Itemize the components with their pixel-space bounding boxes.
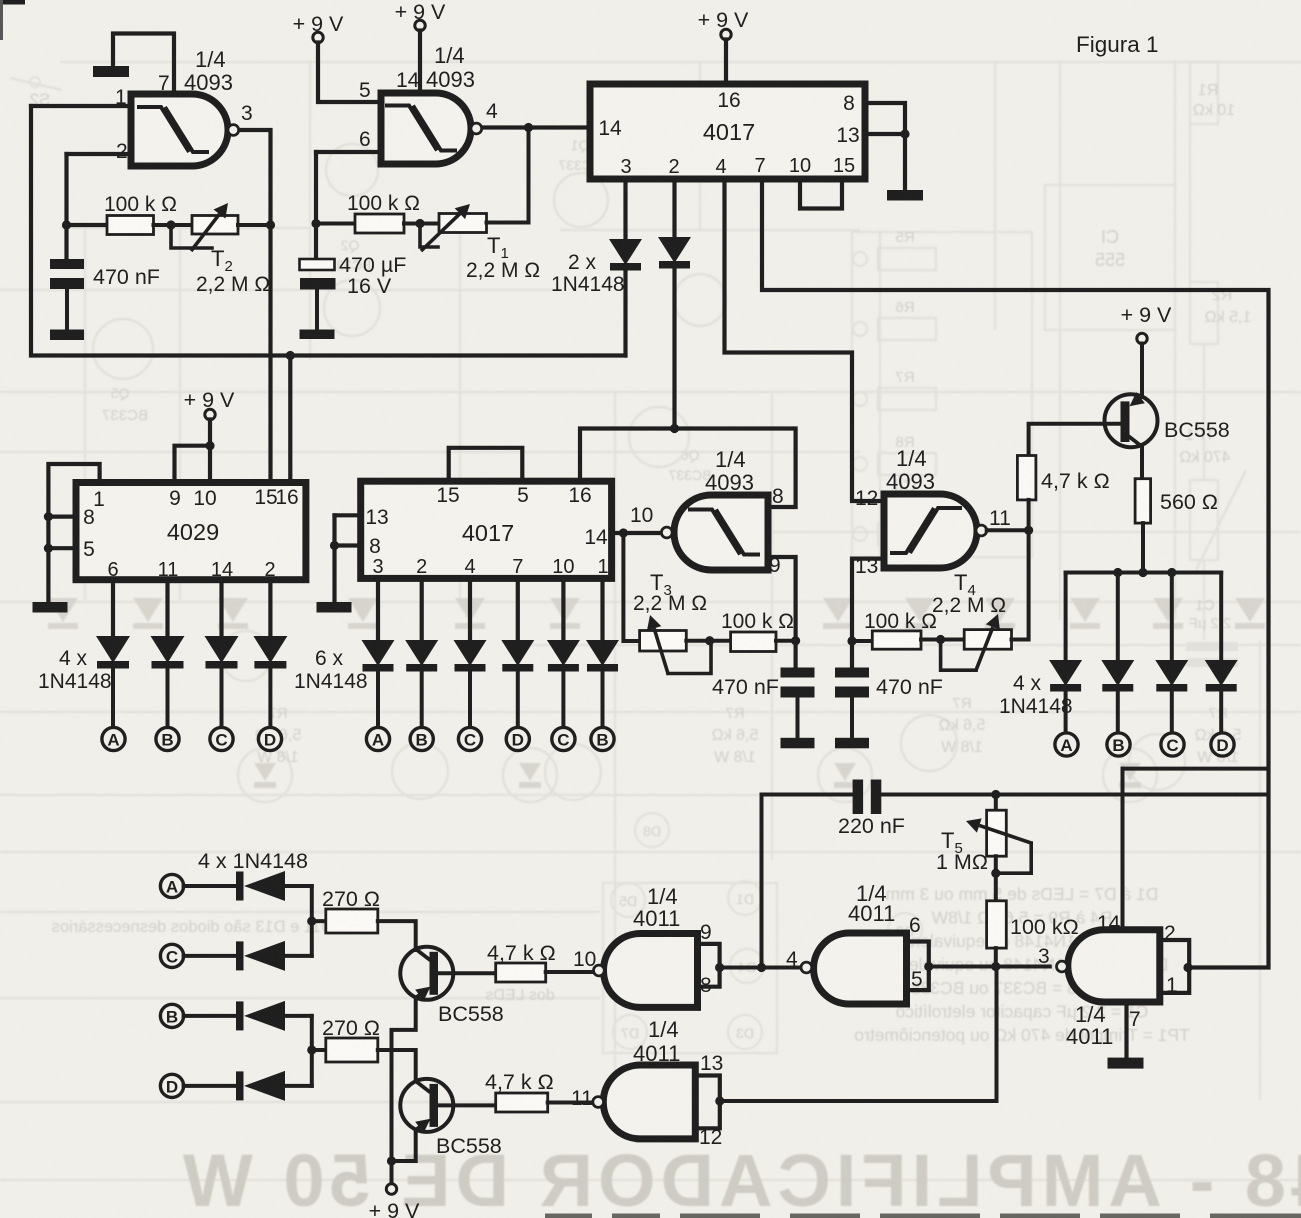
wire: [929, 965, 1050, 969]
wire: [238, 223, 271, 227]
wire: [1141, 523, 1145, 572]
wire: [1140, 344, 1144, 398]
T1 wiper arrow: [421, 214, 460, 251]
wire: [468, 669, 472, 727]
node C: [160, 944, 183, 967]
wire: [312, 919, 326, 923]
node A: [366, 727, 389, 750]
wire: [165, 580, 169, 637]
gate 1/4 4011 GA: [604, 934, 698, 1008]
wire: [208, 420, 212, 483]
op: gate 1/4 4093 (pins 1,2,7,3): [131, 94, 228, 166]
wire: [378, 921, 416, 950]
wire: [111, 667, 115, 727]
node C: [552, 727, 575, 750]
resistor body: [496, 963, 546, 982]
diode 1N4148: [609, 239, 642, 265]
wire: [285, 1014, 312, 1018]
node B: [1107, 733, 1130, 756]
schmitt-trigger mark: [137, 107, 189, 152]
wire: [796, 698, 800, 738]
wire: [312, 1048, 326, 1052]
IC 4017 middle: [361, 481, 612, 578]
wire: [48, 464, 99, 602]
wire: [31, 104, 131, 108]
T2 wiper arrow: [191, 214, 219, 251]
output bubble: [593, 1097, 604, 1108]
wire: [1064, 690, 1068, 732]
diode 1N4148: [586, 640, 619, 666]
output bubble: [661, 527, 672, 538]
gate 1/4 4011 GD: [1068, 930, 1160, 1002]
diode 1N4148: [1049, 660, 1082, 686]
wire: [720, 966, 799, 970]
junction: [524, 123, 533, 132]
gate 1/4 4011 GB: [603, 1065, 695, 1139]
wire: [184, 884, 236, 888]
wire: [1124, 1002, 1128, 1058]
junction: [715, 963, 724, 972]
wire: [601, 669, 605, 727]
junction: [307, 917, 316, 926]
resistor body: [640, 631, 687, 652]
node C: [210, 727, 233, 750]
node D: [160, 1074, 183, 1097]
wire: [921, 638, 964, 642]
ground: [887, 190, 923, 201]
T5 wiper arrow: [979, 825, 1031, 843]
wire: [1012, 530, 1029, 639]
node B: [591, 727, 614, 750]
+9V terminal: [313, 32, 323, 42]
junction: [936, 635, 945, 644]
wire: [686, 639, 730, 643]
wire: [768, 557, 796, 668]
wire: [720, 967, 997, 1102]
gate 1/4 4093 G3: [674, 495, 768, 570]
wire: [800, 179, 842, 209]
resistor 100k (vertical, bottom): [987, 901, 1007, 948]
ground: [33, 602, 68, 613]
wire: [67, 223, 108, 227]
scan corner artifact: [0, 0, 25, 5]
wire: [31, 106, 625, 356]
diode 1N4148: [236, 1001, 244, 1030]
junction: [991, 869, 1000, 878]
resistor body: [731, 632, 776, 652]
diode 1N4148: [236, 872, 244, 901]
wire: [623, 270, 627, 356]
resistor body: [964, 630, 1011, 650]
output bubble: [594, 965, 605, 976]
capacitor: [835, 668, 869, 678]
junction: [619, 528, 628, 537]
junction: [1167, 568, 1176, 577]
capacitor: [781, 668, 815, 678]
node C: [458, 727, 481, 750]
junction: [705, 636, 714, 645]
node A: [160, 874, 183, 897]
wire: [378, 1050, 416, 1081]
wire: [184, 1084, 236, 1088]
wire: [420, 578, 424, 641]
wire: [1116, 573, 1120, 662]
wire: [1121, 769, 1125, 930]
wire: [762, 795, 853, 968]
wire: [438, 1103, 496, 1107]
diode 1N4148: [362, 640, 395, 666]
wire: [239, 130, 271, 482]
wire: [184, 1014, 236, 1018]
wire: [698, 944, 720, 987]
schmitt-trigger mark: [385, 106, 437, 151]
wire: [315, 290, 319, 330]
output bubble: [801, 962, 812, 973]
T3 wiper arrow: [654, 628, 668, 673]
wire: [987, 528, 1029, 532]
wire: [487, 128, 529, 223]
wire: [288, 356, 292, 483]
wire: [516, 669, 520, 727]
wire: [316, 150, 381, 154]
wire: [67, 152, 132, 156]
node D: [506, 727, 529, 750]
wire: [220, 667, 224, 727]
wire: [376, 578, 380, 641]
T4 wiper arrow: [976, 627, 993, 670]
wire: [184, 954, 236, 958]
ground: [1108, 1058, 1144, 1069]
wire: [1123, 767, 1269, 771]
output bubble: [228, 125, 239, 136]
wire: [724, 40, 728, 85]
wire: [695, 1076, 720, 1129]
wire: [219, 580, 223, 637]
+9V terminal: [721, 29, 731, 39]
wire: [994, 856, 998, 901]
transistor BC558 body: [400, 947, 453, 1000]
ground: [93, 66, 129, 77]
resistor body: [107, 216, 154, 235]
output bubble: [976, 525, 987, 536]
wire: [672, 179, 676, 238]
junction: [1113, 568, 1122, 577]
junction: [900, 129, 909, 138]
transistor BC558 body: [1105, 394, 1158, 447]
wire: [623, 179, 627, 240]
junction: [991, 962, 1000, 971]
wire: [438, 971, 496, 975]
junction: [166, 220, 175, 229]
node A: [102, 727, 125, 750]
junction: [44, 544, 53, 553]
+9V terminal: [205, 409, 215, 419]
junction: [205, 441, 214, 450]
wire: [548, 1101, 593, 1105]
junction: [757, 963, 766, 972]
schmitt-trigger mark: [688, 510, 740, 555]
junction: [1024, 526, 1033, 535]
wire: [392, 1130, 416, 1161]
gate 1/4 4093 G4: [884, 494, 977, 568]
wire: [310, 1016, 314, 1086]
wire: [314, 152, 318, 259]
wire: [852, 559, 884, 668]
wire: [404, 222, 439, 226]
wire: [725, 179, 885, 501]
resistor body: [355, 214, 404, 233]
diode 1N4148: [236, 1071, 244, 1100]
+9V terminal: [1137, 333, 1147, 343]
resistor body: [496, 1093, 548, 1112]
wire: [482, 125, 590, 129]
wire: [48, 546, 76, 550]
junction: [991, 790, 1000, 799]
wire: [1219, 573, 1223, 662]
wire: [335, 543, 361, 547]
wire: [420, 669, 424, 727]
wire: [623, 533, 639, 641]
wire: [1029, 424, 1121, 456]
wire: [994, 948, 998, 966]
wire: [65, 289, 69, 330]
wire: [600, 578, 604, 641]
diode 1N4148: [253, 636, 287, 663]
wire: [171, 225, 212, 248]
junction: [307, 1045, 316, 1054]
wire: [285, 954, 312, 958]
wire: [941, 640, 976, 671]
capacitor 470uF 16V electrolytic: [300, 259, 335, 270]
diode 1N4148: [454, 640, 487, 666]
diode 1N4148: [1101, 660, 1134, 686]
wire: [546, 970, 594, 974]
resistor body: [872, 631, 921, 649]
wire: [907, 942, 929, 991]
diode 1N4148: [1155, 660, 1188, 686]
wire: [418, 31, 422, 94]
resistor body: [326, 1038, 378, 1062]
wire: [1066, 571, 1222, 575]
junction: [286, 351, 295, 360]
IC 4017 top: [590, 84, 865, 179]
wire: [1170, 573, 1174, 662]
ground: [300, 330, 335, 340]
wire: [332, 515, 336, 602]
ground: [317, 602, 352, 613]
wire: [612, 531, 662, 535]
resistor body: [439, 214, 487, 233]
diode 1N4148: [1205, 660, 1238, 686]
schmitt-trigger mark: [910, 508, 962, 553]
diode 1N4148: [501, 640, 534, 666]
wire: [996, 843, 1031, 873]
junction: [62, 220, 71, 229]
wire: [1160, 940, 1189, 993]
junction: [715, 1096, 724, 1105]
wire: [865, 103, 905, 190]
bottom cropped text dashes: [545, 1214, 592, 1218]
diode 1N4148: [205, 636, 239, 663]
junction: [670, 424, 679, 433]
wire: [449, 448, 523, 481]
junction: [415, 219, 424, 228]
junction: [44, 512, 53, 521]
junction: [924, 962, 933, 971]
wire: [318, 43, 381, 103]
wire: [850, 698, 854, 738]
wire: [64, 154, 68, 259]
wire: [310, 886, 314, 956]
wire: [420, 224, 438, 248]
resistor 560 ohm (vertical): [1135, 479, 1151, 523]
gate 1/4 4011 GC: [814, 933, 907, 1004]
wire: [285, 884, 312, 888]
wire: [285, 1084, 312, 1088]
junction: [387, 1156, 396, 1165]
wire: [865, 132, 905, 136]
wire: [268, 580, 272, 637]
gate 1/4 4093 (pins 5,6,14,4): [381, 93, 471, 164]
wire: [468, 578, 472, 641]
output bubble: [471, 123, 482, 134]
node B: [156, 727, 179, 750]
wire: [1027, 500, 1031, 530]
wire: [762, 179, 1269, 968]
diode 1N4148: [405, 640, 438, 666]
wire: [390, 1161, 394, 1184]
wire: [516, 578, 520, 641]
diode 1N4148: [658, 237, 691, 263]
junction: [266, 220, 275, 229]
node B: [410, 727, 433, 750]
wire: [882, 793, 1269, 797]
resistor body: [326, 909, 378, 933]
resistor body: [192, 216, 238, 235]
+9V terminal: [415, 20, 425, 30]
junction: [1183, 963, 1192, 972]
wire: [668, 641, 711, 674]
node A: [1055, 733, 1078, 756]
junction: [330, 541, 339, 550]
wire: [1219, 690, 1223, 732]
junction: [791, 636, 800, 645]
resistor 4,7k (vertical): [1017, 456, 1036, 500]
wire: [335, 513, 361, 517]
node D: [258, 727, 281, 750]
wire: [175, 446, 211, 482]
wire: [154, 223, 193, 227]
wire: [316, 222, 355, 226]
junction: [1138, 568, 1147, 577]
node B: [160, 1004, 183, 1027]
wire: [1140, 447, 1144, 479]
junction: [311, 219, 320, 228]
transistor BC558 body: [400, 1079, 453, 1132]
node C: [1161, 733, 1184, 756]
diode 1N4148: [547, 640, 580, 666]
+9V terminal: [386, 1184, 396, 1194]
wire: [1116, 690, 1120, 732]
wire: [392, 998, 416, 1161]
wire: [672, 268, 676, 429]
wire: [1170, 690, 1174, 732]
wire: [561, 578, 565, 641]
wire: [852, 639, 872, 643]
diode 1N4148: [96, 636, 130, 663]
IC 4029: [76, 483, 306, 580]
capacitor: [50, 259, 84, 269]
wire: [580, 429, 796, 508]
wire: [113, 34, 174, 94]
diode 1N4148: [236, 941, 244, 970]
wire: [376, 669, 380, 727]
node D: [1211, 733, 1234, 756]
wire: [48, 514, 76, 518]
wire: [1064, 573, 1068, 662]
output bubble: [1057, 961, 1068, 972]
wire: [994, 795, 998, 811]
wire: [268, 667, 272, 727]
wire: [776, 639, 796, 643]
wire: [111, 580, 115, 637]
junction: [847, 636, 856, 645]
diode 1N4148: [151, 636, 185, 663]
capacitor 220 nF: [853, 780, 864, 815]
wire: [166, 667, 170, 727]
wire: [561, 669, 565, 727]
